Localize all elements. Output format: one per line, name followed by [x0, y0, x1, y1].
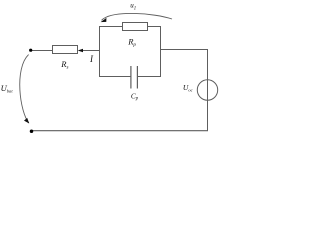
svg-text:Uoc: Uoc: [183, 83, 193, 92]
svg-text:Rp: Rp: [127, 36, 136, 47]
svg-text:I: I: [89, 54, 94, 64]
svg-text:Rs: Rs: [60, 59, 68, 70]
svg-text:u1: u1: [130, 1, 136, 11]
svg-text:Ubat: Ubat: [1, 83, 14, 93]
svg-text:Cp: Cp: [131, 91, 139, 101]
